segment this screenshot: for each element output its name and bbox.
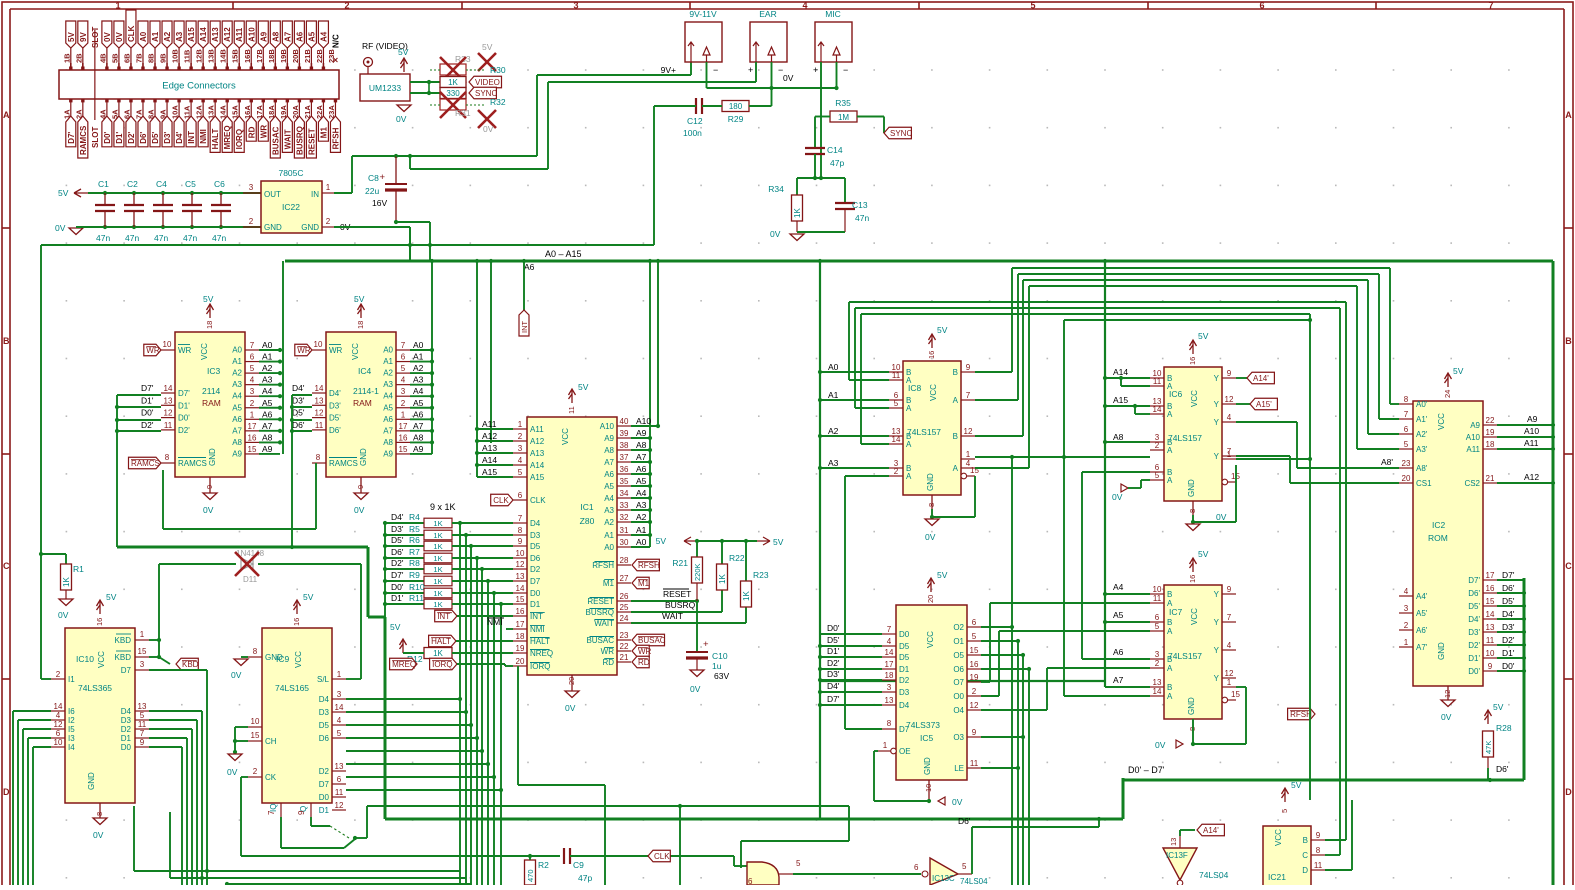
ROM ground (1447, 686, 1449, 700)
svg-text:IN: IN (311, 190, 319, 199)
svg-text:11: 11 (970, 759, 979, 768)
svg-text:A10: A10 (247, 27, 256, 42)
svg-text:Y: Y (1214, 618, 1220, 627)
svg-text:R23: R23 (753, 570, 769, 580)
bus vertical right edge x1550 (1552, 261, 1555, 885)
svg-text:A7: A7 (413, 421, 424, 431)
svg-text:D5: D5 (319, 721, 330, 730)
svg-text:22: 22 (1486, 416, 1495, 425)
svg-text:D5': D5' (292, 408, 305, 418)
svg-text:13: 13 (1153, 678, 1162, 687)
svg-text:A11: A11 (235, 27, 244, 42)
svg-text:D6': D6' (292, 420, 305, 430)
svg-text:10: 10 (924, 784, 933, 792)
edge connector top pin 10B A3 (171, 21, 185, 70)
svg-text:5: 5 (962, 862, 967, 871)
svg-text:16: 16 (927, 351, 936, 359)
edge connector top pin 19B A7 (279, 21, 293, 70)
edge connector top pin 20B A6 (291, 21, 305, 70)
capacitor C5 47n (182, 179, 202, 243)
svg-text:BUSAC: BUSAC (271, 126, 280, 155)
resistor R4 1K (383, 512, 452, 528)
svg-text:B: B (1565, 336, 1572, 346)
svg-text:INT: INT (520, 321, 529, 334)
svg-text:D2': D2' (178, 426, 190, 435)
svg-text:15: 15 (1486, 597, 1495, 606)
svg-text:17: 17 (248, 422, 257, 431)
wire 0V long rail from caps down left side (41, 244, 654, 246)
svg-text:N/C: N/C (331, 34, 340, 48)
svg-text:30: 30 (620, 538, 629, 547)
svg-text:C14: C14 (827, 145, 843, 155)
wire IQ route (280, 817, 282, 848)
resistor R7 1K (383, 547, 452, 563)
net flag CLK bottom (648, 850, 670, 862)
svg-text:VCC: VCC (351, 343, 360, 360)
svg-text:HALT: HALT (530, 637, 550, 646)
inverter IC13C 74LS04 (914, 858, 988, 886)
svg-text:IC13F: IC13F (1166, 851, 1188, 860)
svg-text:D0': D0' (103, 132, 112, 144)
svg-text:4: 4 (1227, 413, 1232, 422)
wire R29 to EAR (749, 105, 772, 107)
svg-text:I4: I4 (68, 743, 75, 752)
edge connector top pin 17B A9 (255, 21, 269, 70)
svg-text:A14: A14 (482, 455, 497, 465)
net flag RFSH at Z80 (632, 559, 659, 571)
svg-text:8: 8 (1188, 509, 1197, 513)
svg-text:8: 8 (316, 453, 321, 462)
svg-text:1K: 1K (433, 577, 442, 586)
svg-text:A4: A4 (604, 494, 614, 503)
wire horizontal y681 link (820, 680, 1105, 682)
svg-text:12B: 12B (195, 49, 204, 63)
svg-text:6: 6 (972, 618, 977, 627)
svg-text:A3: A3 (383, 380, 393, 389)
svg-text:WAIT: WAIT (283, 129, 292, 149)
svg-text:A11: A11 (482, 419, 497, 429)
svg-text:R10: R10 (409, 582, 425, 592)
svg-text:+: + (703, 639, 709, 650)
capacitor C2 47n (124, 179, 144, 243)
svg-text:5V: 5V (390, 622, 401, 632)
svg-text:OUT: OUT (264, 190, 281, 199)
wires IC3 data pins to D-bus vertical (117, 394, 161, 396)
svg-text:11: 11 (567, 406, 576, 414)
svg-text:D2': D2' (827, 658, 840, 668)
svg-text:I6: I6 (68, 707, 75, 716)
edge connector top pin 8B A1 (147, 21, 161, 70)
svg-text:A6: A6 (636, 464, 647, 474)
Z80 left pins (513, 420, 553, 671)
svg-text:NMI: NMI (487, 617, 503, 627)
svg-text:16: 16 (292, 618, 301, 626)
edge connector top pin 9B A2 (159, 21, 173, 70)
svg-text:22: 22 (620, 642, 629, 651)
IC9 CH pin and pin10 (248, 726, 262, 728)
svg-text:A12: A12 (223, 27, 232, 42)
svg-text:I5: I5 (68, 725, 75, 734)
svg-text:D7: D7 (530, 577, 541, 586)
bus verticals to Z80 right-side address pins (649, 261, 651, 547)
nested bus group A (IC8 outputs to ROM A0'-A3') (1012, 267, 1390, 269)
edge connector bottom pin 10A D4' (171, 99, 185, 147)
svg-text:23B: 23B (327, 49, 336, 63)
wires IC4 data pins to D-bus vertical (292, 394, 312, 396)
edge connector bottom pin 17A WR (255, 99, 269, 141)
svg-text:1: 1 (1404, 638, 1409, 647)
svg-text:A8: A8 (271, 31, 280, 42)
svg-text:16: 16 (1486, 584, 1495, 593)
wire MIC- down (836, 62, 838, 88)
wire ROM A8' feed from IC6 pin4 (1236, 421, 1297, 423)
svg-text:5: 5 (1280, 809, 1289, 813)
edge connector bottom pin 5A D1' (110, 99, 124, 147)
wire C8 bottom to 0V (394, 220, 398, 224)
svg-text:C5: C5 (185, 179, 196, 189)
svg-text:8: 8 (253, 647, 258, 656)
svg-text:A2: A2 (163, 31, 172, 42)
edge connector bottom pin 8A D5' (147, 99, 161, 147)
svg-text:5: 5 (250, 364, 255, 373)
svg-text:A1: A1 (604, 531, 614, 540)
svg-text:A9: A9 (604, 434, 614, 443)
svg-text:A2: A2 (604, 518, 614, 527)
svg-text:36: 36 (620, 465, 629, 474)
svg-text:4: 4 (56, 711, 61, 720)
svg-text:C9: C9 (573, 860, 584, 870)
latched data loop row y320 (1064, 319, 1310, 321)
svg-text:I1: I1 (68, 675, 75, 684)
svg-text:A8: A8 (383, 438, 393, 447)
svg-text:5B: 5B (110, 53, 119, 63)
svg-text:R5: R5 (409, 524, 420, 534)
svg-text:4: 4 (887, 637, 892, 646)
resistor R22 1K (717, 541, 745, 590)
svg-text:B: B (1167, 683, 1172, 692)
svg-text:16A: 16A (243, 105, 252, 119)
svg-text:5V: 5V (482, 42, 493, 52)
svg-text:A14': A14' (1203, 826, 1219, 835)
svg-text:D7: D7 (899, 725, 910, 734)
svg-text:0V: 0V (1441, 712, 1452, 722)
svg-text:47n: 47n (96, 233, 110, 243)
svg-text:16: 16 (95, 618, 104, 626)
RF modulator UM1233 (360, 41, 410, 101)
wires IC21 B/C/D to latched data loop verticals (1325, 839, 1346, 841)
svg-text:A15: A15 (530, 473, 545, 482)
svg-text:D1': D1' (1468, 654, 1480, 663)
svg-text:5V: 5V (398, 47, 409, 57)
svg-text:A2': A2' (1416, 430, 1428, 439)
wire IORQ region down to bottom (517, 666, 519, 785)
edge connector bottom pin 7A D6' (134, 99, 148, 147)
svg-text:74LS365: 74LS365 (78, 683, 112, 693)
svg-text:18: 18 (885, 671, 894, 680)
svg-text:BUSAC: BUSAC (586, 636, 614, 645)
svg-text:VCC: VCC (200, 343, 209, 360)
svg-text:5V: 5V (106, 592, 117, 602)
svg-text:D3': D3' (827, 669, 840, 679)
svg-text:D4': D4' (827, 681, 840, 691)
svg-text:Y: Y (1214, 418, 1220, 427)
svg-text:17: 17 (885, 660, 894, 669)
wires IC9 parallel inputs from resistor verticals (346, 698, 460, 700)
svg-text:0V: 0V (690, 684, 701, 694)
svg-text:4B: 4B (98, 53, 107, 63)
svg-text:4: 4 (1404, 587, 1409, 596)
edge connector top pin 15B A11 (231, 21, 245, 70)
svg-text:A6: A6 (1113, 647, 1124, 657)
svg-text:21B: 21B (303, 49, 312, 63)
IC5 OE pin (878, 750, 891, 752)
svg-text:0V: 0V (783, 73, 794, 83)
svg-text:A14: A14 (530, 461, 545, 470)
svg-text:A0: A0 (139, 31, 148, 42)
svg-text:3: 3 (140, 660, 145, 669)
keyboard matrix bottom horizontals (134, 870, 460, 872)
svg-text:A3': A3' (1416, 445, 1428, 454)
svg-text:17: 17 (399, 422, 408, 431)
svg-text:5A: 5A (110, 109, 119, 119)
svg-text:3: 3 (250, 387, 255, 396)
keyboard verticals joining bottom rows (459, 870, 461, 872)
buffer IC10 74LS365 (65, 592, 135, 803)
svg-text:0V: 0V (770, 229, 781, 239)
svg-text:D5': D5' (1502, 596, 1515, 606)
svg-text:A: A (1167, 476, 1173, 485)
svg-text:1K: 1K (793, 208, 802, 218)
IC9 GND pin top-left (248, 656, 262, 658)
svg-text:6B: 6B (122, 53, 131, 63)
svg-text:12: 12 (1443, 690, 1452, 698)
svg-text:CK: CK (265, 773, 277, 782)
svg-text:A5': A5' (1416, 609, 1428, 618)
multiplexer IC8 74LS157 (889, 325, 979, 509)
svg-text:C10: C10 (712, 651, 728, 661)
svg-text:74LS165: 74LS165 (275, 683, 309, 693)
svg-text:9: 9 (297, 810, 306, 815)
svg-text:1: 1 (518, 420, 523, 429)
edge connector bottom pin 2A RAMCS (74, 99, 88, 158)
svg-text:A2: A2 (828, 426, 839, 436)
svg-text:9: 9 (972, 728, 977, 737)
svg-text:A8': A8' (1416, 464, 1428, 473)
svg-text:Y: Y (1214, 400, 1220, 409)
svg-text:D2': D2' (391, 558, 404, 568)
edge connector top pin 7B A0 (134, 21, 148, 70)
svg-text:5V: 5V (67, 32, 76, 42)
svg-text:RD: RD (247, 126, 256, 138)
junction D6' on D bus (1488, 778, 1492, 782)
ground under R1 (59, 599, 73, 606)
svg-text:B: B (1167, 655, 1172, 664)
svg-text:5V: 5V (1453, 366, 1464, 376)
ground under C10 (690, 670, 704, 677)
svg-text:20A: 20A (291, 105, 300, 119)
bus D0'-D7' step up at x1123 (1122, 778, 1125, 819)
svg-text:D4: D4 (319, 695, 330, 704)
svg-text:1: 1 (115, 1, 120, 11)
svg-text:1K: 1K (433, 542, 442, 551)
svg-text:9: 9 (140, 738, 145, 747)
svg-text:21: 21 (1486, 474, 1495, 483)
svg-text:40: 40 (620, 417, 629, 426)
resistor R1 1K (61, 564, 85, 599)
svg-text:3: 3 (1404, 604, 1409, 613)
svg-text:GND: GND (1187, 697, 1196, 715)
svg-text:7: 7 (887, 625, 892, 634)
svg-text:D6': D6' (329, 426, 341, 435)
edge connector bottom pin 21A RESET (303, 99, 317, 158)
svg-text:+: + (813, 65, 818, 75)
svg-text:WR: WR (601, 647, 615, 656)
svg-text:5: 5 (1404, 440, 1409, 449)
svg-text:A3: A3 (232, 380, 242, 389)
svg-text:0V: 0V (58, 610, 69, 620)
svg-text:A15: A15 (187, 27, 196, 42)
svg-text:IC3: IC3 (207, 366, 221, 376)
svg-text:3: 3 (887, 683, 892, 692)
svg-text:2: 2 (401, 399, 406, 408)
svg-text:17: 17 (1486, 571, 1495, 580)
svg-text:1: 1 (1227, 678, 1232, 687)
wire RAMCS link to IC4 (162, 470, 164, 529)
svg-text:R29: R29 (728, 114, 744, 124)
svg-text:6: 6 (1155, 613, 1160, 622)
svg-text:A9: A9 (413, 444, 424, 454)
svg-text:O3: O3 (953, 733, 964, 742)
svg-text:24: 24 (620, 614, 629, 623)
wire inverter output up to D6' junction (971, 827, 973, 874)
svg-text:KBD: KBD (182, 660, 199, 669)
svg-text:IC2: IC2 (1432, 520, 1446, 530)
svg-text:A3: A3 (828, 458, 839, 468)
svg-text:D0: D0 (319, 793, 330, 802)
svg-text:5: 5 (972, 632, 977, 641)
svg-text:1K: 1K (433, 589, 442, 598)
svg-text:D1: D1 (530, 600, 541, 609)
svg-text:3: 3 (1155, 650, 1160, 659)
svg-text:RAM: RAM (202, 398, 221, 408)
svg-text:5V: 5V (58, 188, 69, 198)
svg-text:74LS04: 74LS04 (960, 877, 988, 885)
svg-text:D1': D1' (827, 646, 840, 656)
svg-text:GND: GND (1187, 479, 1196, 497)
edge connector top pin 12B A14 (195, 21, 209, 70)
edge connector top pin 11B A15 (183, 21, 197, 70)
wire vertical x1105 (high address riser) (1104, 261, 1106, 681)
wire KBD S/L to IC9 (346, 678, 361, 680)
svg-text:D4': D4' (292, 383, 305, 393)
svg-text:47p: 47p (830, 158, 844, 168)
svg-text:A: A (906, 376, 912, 385)
svg-text:470: 470 (526, 869, 535, 882)
svg-text:RAMCS: RAMCS (329, 459, 358, 468)
bus D0'-D7' vertical to ROM data pins (1523, 578, 1526, 780)
svg-text:VCC: VCC (97, 651, 106, 668)
bus vertical x491 (490, 261, 492, 443)
svg-text:A5: A5 (1113, 610, 1124, 620)
svg-text:IC10: IC10 (76, 654, 94, 664)
svg-text:A: A (906, 472, 912, 481)
svg-text:D3: D3 (899, 688, 910, 697)
svg-text:2B: 2B (74, 53, 83, 63)
svg-text:47n: 47n (154, 233, 168, 243)
svg-text:9 x 1K: 9 x 1K (430, 502, 456, 512)
svg-text:1K: 1K (742, 591, 751, 601)
svg-text:A6: A6 (524, 262, 535, 272)
resistor R2 470 (525, 856, 550, 885)
svg-text:GND: GND (926, 473, 935, 491)
connector EAR (748, 9, 787, 75)
svg-text:1: 1 (401, 410, 406, 419)
svg-text:A0: A0 (262, 340, 273, 350)
svg-text:R6: R6 (409, 535, 420, 545)
svg-text:26: 26 (620, 592, 629, 601)
svg-text:A: A (1167, 627, 1173, 636)
edge connector top pin 4B 0V (98, 21, 112, 70)
svg-text:11: 11 (1153, 377, 1162, 386)
svg-text:A4: A4 (1113, 582, 1124, 592)
svg-text:A12: A12 (1524, 472, 1539, 482)
svg-text:GND: GND (1437, 642, 1446, 660)
svg-text:8B: 8B (147, 53, 156, 63)
svg-text:A1: A1 (151, 31, 160, 42)
svg-text:38: 38 (620, 441, 629, 450)
svg-text:A9: A9 (383, 449, 393, 458)
svg-text:D6': D6' (1502, 583, 1515, 593)
svg-text:D1: D1 (121, 734, 132, 743)
svg-text:5V: 5V (203, 294, 214, 304)
svg-text:2114-1: 2114-1 (353, 386, 379, 396)
svg-text:Y: Y (1214, 674, 1220, 683)
svg-text:15: 15 (399, 445, 408, 454)
svg-text:12: 12 (1225, 395, 1234, 404)
svg-text:OE: OE (899, 747, 911, 756)
edge connector bottom pin 19A WAIT (279, 99, 293, 152)
net flag MREQ (390, 658, 417, 670)
svg-text:47p: 47p (578, 873, 592, 883)
net flag SYNC (video out) (469, 87, 496, 99)
edge connector top pin 21B A5 (303, 21, 317, 70)
verticals from resistor pack down to page bottom (459, 523, 461, 885)
long mid verticals (latch/mux column) (1011, 268, 1013, 372)
svg-text:D5: D5 (530, 542, 541, 551)
svg-text:9V-11V: 9V-11V (689, 9, 717, 19)
svg-text:5V: 5V (937, 325, 948, 335)
svg-text:B: B (953, 432, 958, 441)
wire IC6 pin6 down to IC7 (1082, 471, 1150, 473)
svg-text:11: 11 (1314, 861, 1323, 870)
svg-text:A: A (953, 396, 959, 405)
svg-text:D4': D4' (391, 512, 404, 522)
svg-text:A1: A1 (262, 352, 273, 362)
svg-text:D4': D4' (329, 389, 341, 398)
svg-text:A9: A9 (259, 31, 268, 42)
resistor R11 1K (383, 593, 452, 609)
svg-text:A: A (1167, 382, 1173, 391)
svg-text:A: A (1167, 664, 1173, 673)
svg-text:INT: INT (437, 612, 450, 621)
svg-text:A10: A10 (1466, 433, 1481, 442)
svg-text:9B: 9B (159, 53, 168, 63)
svg-text:O0: O0 (953, 692, 964, 701)
svg-text:CLK: CLK (654, 852, 670, 861)
svg-text:MREQ: MREQ (392, 660, 416, 669)
wire INT drop from bus (523, 261, 525, 310)
svg-text:1: 1 (250, 410, 255, 419)
